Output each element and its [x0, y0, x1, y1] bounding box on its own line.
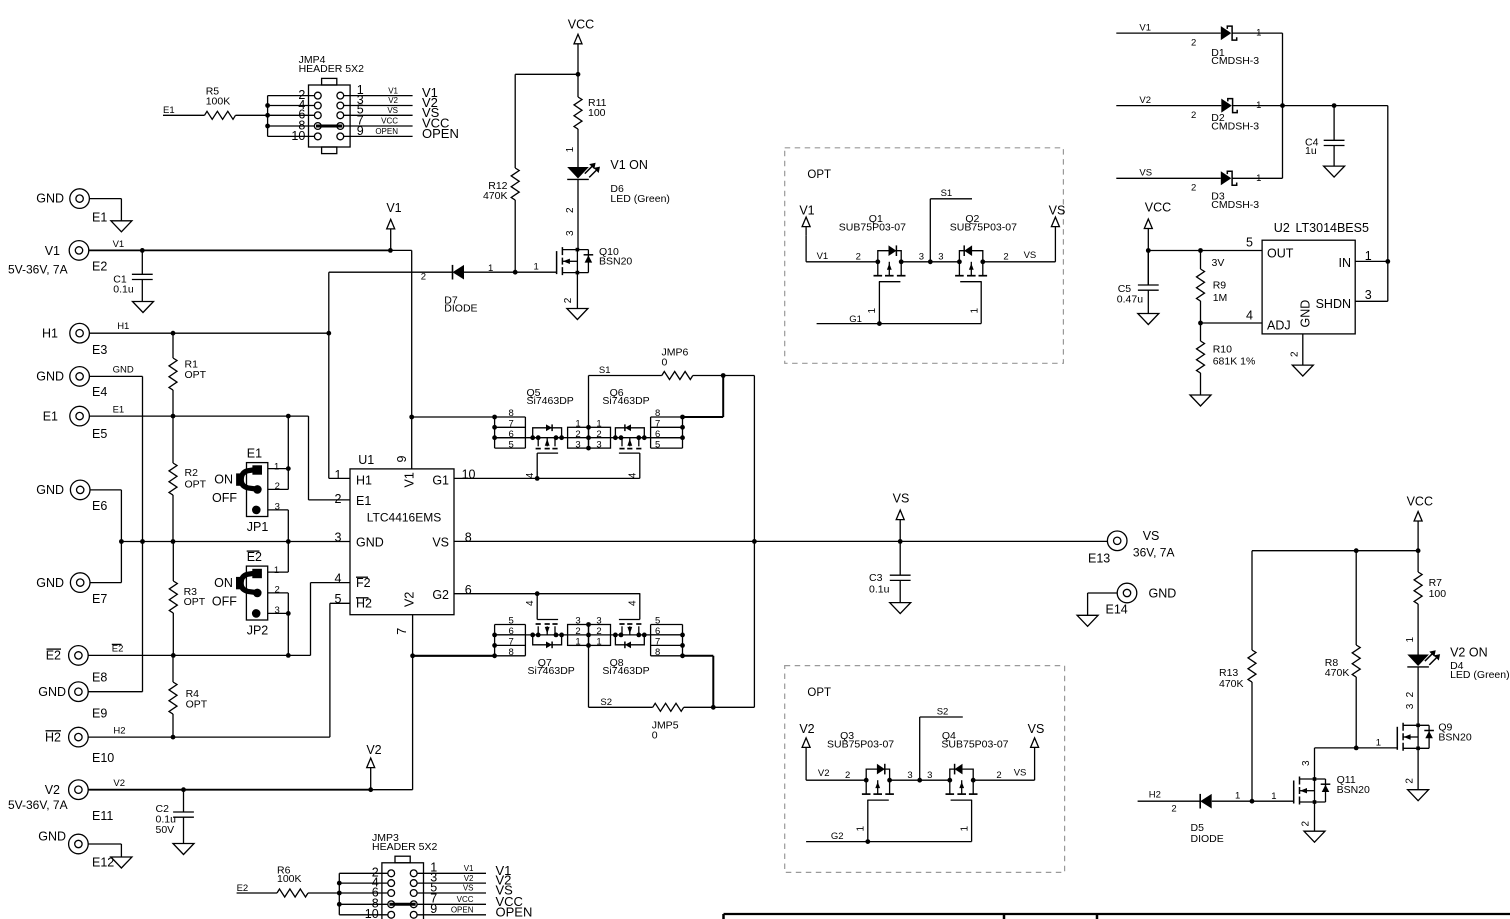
- svg-text:1: 1: [855, 826, 866, 832]
- transistor Q7 Si7463DP: [525, 594, 575, 677]
- svg-text:Si7463DP: Si7463DP: [528, 665, 575, 677]
- svg-text:4: 4: [627, 600, 638, 606]
- wire Q6 drain to JMP6: [683, 376, 724, 418]
- wire V1 feed to Q5 ladder: [412, 416, 495, 418]
- pin ladder Q6 pins 8-5: [651, 408, 683, 450]
- svg-text:5V-36V, 7A: 5V-36V, 7A: [8, 798, 68, 812]
- svg-text:V1: V1: [799, 204, 814, 218]
- wire E4 GND to rail: [89, 365, 142, 692]
- svg-text:1: 1: [1256, 100, 1261, 111]
- svg-text:3: 3: [275, 605, 280, 616]
- svg-text:E3: E3: [92, 343, 107, 357]
- turret terminal E4 (GND): [36, 367, 107, 399]
- svg-text:8: 8: [655, 647, 660, 658]
- svg-text:V1: V1: [1139, 22, 1151, 33]
- junction V1/C1: [140, 248, 145, 253]
- capacitor C5 0.47u: [1117, 251, 1159, 314]
- svg-text:U1: U1: [358, 453, 374, 467]
- resistor R4 OPT: [169, 655, 208, 737]
- svg-text:1: 1: [1256, 173, 1261, 184]
- junction E1/JP1: [286, 414, 291, 419]
- junction GND rail/JP branch: [286, 539, 291, 544]
- title block border: [724, 914, 1510, 919]
- wire GND rail to U1 pin3: [121, 541, 350, 543]
- svg-text:BSN20: BSN20: [1438, 732, 1471, 744]
- svg-text:V1: V1: [403, 472, 417, 487]
- turret terminal E11 (V2 input): [8, 780, 113, 823]
- ground symbol at C4: [1324, 166, 1345, 177]
- transistor Q11 BSN20: [1294, 774, 1370, 804]
- ground symbol at Q11: [1304, 831, 1325, 842]
- svg-text:2: 2: [275, 584, 280, 595]
- junction rail/R8: [1354, 548, 1359, 553]
- svg-text:7: 7: [509, 637, 514, 648]
- svg-text:6: 6: [655, 626, 660, 637]
- turret terminal E1 (GND): [36, 189, 107, 225]
- wire net H2 right: [1138, 789, 1294, 814]
- wire net H2bar: [88, 603, 350, 737]
- svg-text:V2: V2: [366, 743, 381, 757]
- svg-text:4: 4: [525, 472, 536, 478]
- junction JMP4 bus rows: [265, 103, 270, 128]
- junction ADJ/R9-R10: [1198, 321, 1203, 326]
- junction JP2 pin3: [286, 611, 291, 616]
- junction JP1 pin1: [286, 466, 291, 471]
- junction D7/R12: [513, 270, 518, 275]
- svg-text:G1: G1: [432, 473, 449, 487]
- svg-text:3: 3: [575, 616, 580, 627]
- svg-text:2: 2: [335, 492, 342, 506]
- junction VS/JMP vertical: [752, 539, 757, 544]
- diode D1 CMDSH-3: [1116, 22, 1282, 67]
- junction S2/Q3-Q4 sources: [917, 778, 922, 783]
- junction diode bus/D2: [1280, 103, 1285, 108]
- wire net S2: [588, 625, 590, 708]
- junction G2/Q3 gate: [865, 839, 870, 844]
- wire D4 to Q9: [1405, 667, 1418, 725]
- power flag VCC top: [568, 17, 594, 74]
- turret terminal E8 (E2bar): [46, 646, 108, 685]
- diode D7 DIODE: [444, 265, 477, 315]
- wire JMP4 right stubs: [344, 85, 459, 141]
- svg-text:5V-36V, 7A: 5V-36V, 7A: [8, 262, 68, 276]
- svg-text:2: 2: [1171, 803, 1176, 814]
- svg-text:E1: E1: [247, 446, 262, 460]
- diode D3 CMDSH-3: [1116, 168, 1282, 211]
- resistor JMP5 0: [589, 697, 755, 742]
- svg-text:1: 1: [488, 263, 493, 274]
- svg-text:E5: E5: [92, 427, 107, 441]
- wire JMP3 left bus: [339, 873, 387, 915]
- resistor R1 OPT: [169, 333, 207, 416]
- svg-text:V2: V2: [388, 96, 398, 105]
- svg-text:VS: VS: [1028, 722, 1045, 736]
- turret terminal E5 (E1 enable): [43, 406, 108, 440]
- svg-text:V1 ON: V1 ON: [610, 158, 648, 172]
- resistor R6 100K: [237, 864, 340, 897]
- wire source rail Q7-Q8: [495, 634, 683, 636]
- wire source rail Q5-Q6: [495, 437, 683, 439]
- wire G2 rail: [454, 593, 640, 595]
- junction pin9/Q5 feed: [409, 415, 414, 420]
- svg-text:VS: VS: [893, 492, 910, 506]
- svg-text:V1: V1: [388, 86, 398, 95]
- ground symbol at U2: [1292, 365, 1313, 376]
- junction D5/R13: [1250, 799, 1255, 804]
- capacitor C2 0.1u 50V: [156, 790, 194, 844]
- transistor Q3 SUB75P03-07: [827, 730, 894, 842]
- svg-text:1: 1: [274, 461, 279, 472]
- svg-text:OFF: OFF: [212, 491, 237, 505]
- svg-text:1: 1: [1405, 637, 1416, 643]
- svg-text:0.47u: 0.47u: [1117, 294, 1143, 306]
- transistor Q2 SUB75P03-07: [950, 213, 1017, 324]
- svg-text:1M: 1M: [1213, 292, 1228, 304]
- wire V2 feed to Q7 ladder: [413, 655, 495, 657]
- svg-text:2: 2: [845, 770, 850, 781]
- svg-text:3: 3: [596, 440, 601, 451]
- resistor R3 OPT: [169, 542, 205, 656]
- svg-text:H2: H2: [113, 725, 125, 736]
- capacitor C3 0.1u: [869, 541, 911, 602]
- svg-text:VS: VS: [1139, 168, 1152, 179]
- junction Q7 ladder rows: [492, 633, 497, 659]
- svg-text:LED (Green): LED (Green): [610, 193, 670, 205]
- ground symbol at Q10: [567, 309, 588, 320]
- svg-text:H1: H1: [117, 321, 129, 332]
- header JMP3 HEADER 5X2: [365, 832, 438, 919]
- wire U2 ADJ: [1201, 322, 1263, 324]
- ground symbol at E12: [111, 857, 132, 868]
- svg-text:1: 1: [1365, 249, 1372, 263]
- turret terminal E13 (VS output): [1088, 529, 1175, 565]
- svg-text:V1: V1: [45, 244, 60, 258]
- wire JP1 pins to nets: [287, 416, 289, 541]
- svg-text:SUB75P03-07: SUB75P03-07: [950, 221, 1017, 233]
- wire U2 GND pin: [1302, 334, 1304, 365]
- svg-text:0.1u: 0.1u: [113, 284, 134, 296]
- svg-text:OPEN: OPEN: [451, 906, 474, 915]
- optional box OPT bottom: [785, 666, 1065, 873]
- turret terminal E7 (GND): [36, 573, 107, 606]
- junction E2bar/JP2: [286, 653, 291, 658]
- svg-text:0: 0: [652, 730, 658, 742]
- svg-text:E8: E8: [92, 670, 107, 684]
- power flag V2: [366, 743, 381, 790]
- junction Q5 ladder rows: [492, 415, 497, 441]
- ground symbol at C1: [133, 302, 154, 313]
- junction GND rail/R2: [171, 539, 176, 544]
- svg-text:10: 10: [365, 907, 379, 919]
- svg-text:1: 1: [596, 637, 601, 648]
- wire U1 pin7 V2 sense: [412, 615, 414, 790]
- svg-text:VS: VS: [1014, 768, 1027, 779]
- svg-text:ADJ: ADJ: [1267, 319, 1291, 333]
- svg-text:E7: E7: [92, 592, 107, 606]
- svg-text:GND: GND: [113, 365, 134, 376]
- svg-text:VS: VS: [1143, 529, 1160, 543]
- svg-text:VS: VS: [1024, 250, 1037, 261]
- svg-text:H1: H1: [356, 473, 372, 487]
- svg-text:10: 10: [462, 468, 476, 482]
- svg-text:VCC: VCC: [1145, 200, 1171, 214]
- junction G1/Q1 gate: [877, 321, 882, 326]
- wire VCC right rail: [1252, 550, 1418, 552]
- svg-text:OPEN: OPEN: [496, 904, 533, 919]
- op-amp U1 LTC4416EMS: [335, 453, 476, 635]
- ground symbol at C3: [890, 603, 911, 614]
- resistor R11 100: [565, 74, 607, 167]
- junction GND rail/E6-E7: [119, 539, 124, 544]
- svg-text:1: 1: [1376, 738, 1381, 749]
- transistor Q8 Si7463DP: [602, 594, 649, 677]
- power flag VCC at U2: [1144, 200, 1171, 285]
- svg-text:50V: 50V: [156, 824, 175, 836]
- svg-text:JP1: JP1: [247, 520, 269, 534]
- svg-text:7: 7: [509, 419, 514, 430]
- svg-text:S1: S1: [941, 188, 953, 199]
- resistor R8 470K: [1325, 551, 1360, 748]
- resistor R2 OPT: [169, 416, 207, 541]
- svg-text:1: 1: [1235, 790, 1240, 801]
- svg-text:470K: 470K: [1219, 678, 1244, 690]
- svg-text:E2: E2: [46, 649, 61, 663]
- svg-text:ON: ON: [214, 576, 233, 590]
- svg-text:OFF: OFF: [212, 595, 237, 609]
- svg-text:GND: GND: [36, 370, 64, 384]
- svg-text:H2: H2: [1149, 789, 1161, 800]
- svg-text:VS: VS: [463, 884, 474, 893]
- svg-text:OPEN: OPEN: [375, 127, 398, 136]
- svg-text:3: 3: [575, 440, 580, 451]
- svg-text:R2: R2: [185, 467, 199, 479]
- svg-text:GND: GND: [36, 192, 64, 206]
- LED D6 V1 ON (Green): [567, 158, 670, 205]
- svg-text:Si7463DP: Si7463DP: [527, 395, 574, 407]
- junction JMP3 bus rows: [337, 881, 342, 907]
- wire D6 to Q10: [565, 179, 578, 249]
- turret terminal E6 (GND): [36, 480, 107, 513]
- svg-text:GND: GND: [36, 576, 64, 590]
- junction H2bar/R4: [171, 735, 176, 740]
- junction S1 ladder rows: [586, 425, 591, 451]
- wire net G2 in OPT: [806, 831, 972, 842]
- junction E1/R1-R2: [171, 414, 176, 419]
- svg-text:2: 2: [563, 297, 574, 303]
- svg-text:1: 1: [596, 418, 601, 429]
- svg-text:5: 5: [335, 592, 342, 606]
- wire Q11 source to ground: [1300, 802, 1314, 831]
- svg-text:V1: V1: [113, 239, 125, 250]
- svg-text:BSN20: BSN20: [599, 256, 632, 268]
- svg-text:E1: E1: [163, 105, 175, 116]
- svg-text:GND: GND: [1149, 586, 1177, 600]
- wire V2 to Q3: [806, 768, 866, 781]
- svg-text:5: 5: [655, 616, 660, 627]
- junction JMP5/Q8 drain: [711, 705, 716, 710]
- wire E9 to GND branch: [88, 691, 142, 693]
- svg-text:2: 2: [1405, 691, 1416, 697]
- svg-text:E9: E9: [92, 706, 107, 720]
- header JMP4 HEADER 5X2: [291, 54, 364, 154]
- svg-text:BSN20: BSN20: [1337, 784, 1370, 796]
- svg-text:CMDSH-3: CMDSH-3: [1211, 199, 1259, 211]
- svg-text:OPT: OPT: [807, 169, 831, 181]
- wire net H1: [89, 272, 350, 478]
- wire E14 to ground: [1088, 593, 1117, 615]
- svg-text:2: 2: [856, 252, 861, 263]
- power flag VS in OPT: [1049, 204, 1066, 227]
- svg-text:6: 6: [655, 429, 660, 440]
- svg-text:H1: H1: [42, 326, 58, 340]
- junction V2/C2: [181, 787, 186, 792]
- junction H1/R1: [171, 331, 176, 336]
- svg-text:2: 2: [575, 626, 580, 637]
- svg-text:100: 100: [1429, 588, 1447, 600]
- wire E7 to GND rail: [90, 582, 121, 584]
- svg-text:2: 2: [421, 272, 426, 283]
- svg-text:2: 2: [1191, 38, 1196, 49]
- svg-text:100K: 100K: [277, 873, 302, 885]
- resistor JMP6 0: [589, 346, 755, 379]
- optional box OPT top: [785, 148, 1064, 363]
- svg-text:4: 4: [335, 571, 342, 585]
- svg-text:2: 2: [996, 770, 1001, 781]
- svg-text:5: 5: [509, 616, 514, 627]
- svg-text:1u: 1u: [1305, 145, 1317, 157]
- svg-text:GND: GND: [356, 535, 384, 549]
- svg-text:VS: VS: [1049, 204, 1066, 218]
- svg-text:3: 3: [275, 502, 280, 513]
- svg-text:IN: IN: [1339, 256, 1352, 270]
- svg-text:3: 3: [335, 531, 342, 545]
- svg-text:3: 3: [938, 252, 943, 263]
- svg-text:3: 3: [1301, 760, 1312, 766]
- svg-text:E1: E1: [43, 409, 58, 423]
- svg-text:E6: E6: [92, 499, 107, 513]
- wire E6 to GND rail: [90, 490, 121, 583]
- svg-text:2: 2: [575, 429, 580, 440]
- svg-text:E13: E13: [1088, 551, 1110, 565]
- capacitor C4 1u: [1305, 106, 1345, 167]
- svg-text:OPT: OPT: [807, 687, 831, 699]
- wire Q8 drain to JMP5: [683, 656, 714, 708]
- junction JMP6/Q6 drain: [721, 373, 726, 378]
- power flag VS in OPT bottom: [1028, 722, 1045, 747]
- transistor Q9 BSN20: [1397, 722, 1472, 751]
- jumper JP2: [212, 550, 288, 638]
- svg-text:1: 1: [274, 565, 279, 576]
- svg-text:V2: V2: [464, 874, 474, 883]
- svg-text:100: 100: [588, 107, 606, 119]
- svg-text:GND: GND: [38, 830, 66, 844]
- junction V2/arrow stub: [368, 787, 373, 792]
- svg-text:VCC: VCC: [1407, 494, 1433, 508]
- svg-text:VCC: VCC: [381, 117, 398, 126]
- svg-text:V2: V2: [1139, 95, 1151, 106]
- ground symbol at E1: [111, 221, 132, 232]
- diode D5 DIODE: [1191, 794, 1224, 845]
- svg-text:E1: E1: [92, 211, 107, 225]
- junction D2 line/C4: [1332, 103, 1337, 108]
- svg-text:3: 3: [565, 230, 576, 236]
- junction OUT/C5: [1146, 248, 1151, 253]
- junction pin7/Q7 feed: [410, 653, 415, 658]
- svg-text:VCC: VCC: [568, 17, 594, 31]
- svg-text:1: 1: [575, 637, 580, 648]
- junction rail/R7: [1416, 548, 1421, 553]
- power flag VS mid: [893, 492, 910, 542]
- pin ladder Q5 pins 8-5: [495, 408, 526, 450]
- wire D1-D3 cathode bus: [1282, 33, 1284, 178]
- svg-text:2: 2: [1191, 110, 1196, 121]
- svg-text:SUB75P03-07: SUB75P03-07: [941, 738, 1008, 750]
- junction S1/Q1-Q2 sources: [928, 259, 933, 264]
- svg-text:VS: VS: [387, 106, 398, 115]
- transistor Q6 Si7463DP: [602, 387, 649, 478]
- svg-text:OPT: OPT: [184, 596, 206, 608]
- svg-text:OPT: OPT: [185, 479, 207, 491]
- svg-text:E11: E11: [92, 809, 113, 823]
- svg-text:G2: G2: [432, 588, 449, 602]
- wire U1 pin9 V1 sense: [411, 250, 413, 469]
- svg-text:GND: GND: [36, 483, 64, 497]
- junction Q8 ladder rows: [680, 633, 685, 659]
- wire net S1 in OPT: [901, 188, 972, 263]
- svg-text:E4: E4: [92, 385, 107, 399]
- svg-text:DIODE: DIODE: [1191, 833, 1224, 845]
- svg-text:V2: V2: [818, 768, 830, 779]
- svg-text:CMDSH-3: CMDSH-3: [1211, 120, 1259, 132]
- junction GND rail/E4 branch: [140, 539, 145, 544]
- svg-text:4: 4: [627, 472, 638, 478]
- wire net V2 rail: [88, 778, 412, 790]
- wire net S1: [588, 376, 590, 449]
- junction S2 ladder rows: [586, 622, 591, 648]
- ground symbol at C5: [1138, 314, 1159, 325]
- turret terminal E10 (H2bar): [45, 727, 114, 765]
- wire VS rail: [454, 540, 1107, 542]
- svg-text:CMDSH-3: CMDSH-3: [1211, 55, 1259, 67]
- svg-text:V2: V2: [799, 722, 814, 736]
- svg-text:U2: U2: [1274, 221, 1290, 235]
- wire net H1/D7 to Q10 gate: [329, 261, 557, 282]
- svg-text:E2: E2: [247, 550, 262, 564]
- wire net E2bar: [88, 583, 350, 656]
- jumper JP1: [212, 446, 288, 534]
- svg-text:V1: V1: [386, 201, 401, 215]
- svg-text:2: 2: [1191, 183, 1196, 194]
- svg-text:H2: H2: [45, 730, 61, 744]
- svg-text:D5: D5: [1191, 822, 1205, 834]
- svg-text:GND: GND: [1299, 300, 1313, 328]
- svg-text:1: 1: [960, 826, 971, 832]
- svg-text:Si7463DP: Si7463DP: [602, 395, 649, 407]
- svg-text:3: 3: [919, 252, 924, 263]
- ground symbol at Q9: [1408, 790, 1429, 801]
- turret terminal E9 (GND): [38, 682, 107, 720]
- svg-text:E10: E10: [92, 751, 114, 765]
- wire V1 to Q1: [806, 251, 878, 262]
- svg-text:1: 1: [534, 261, 539, 272]
- svg-text:HEADER 5X2: HEADER 5X2: [372, 841, 438, 853]
- svg-text:H2: H2: [356, 596, 372, 610]
- svg-text:100K: 100K: [206, 96, 231, 108]
- junction G1/Q5 gate: [535, 476, 540, 481]
- svg-text:Si7463DP: Si7463DP: [602, 665, 649, 677]
- svg-text:0: 0: [662, 357, 668, 369]
- svg-text:1: 1: [1256, 28, 1261, 39]
